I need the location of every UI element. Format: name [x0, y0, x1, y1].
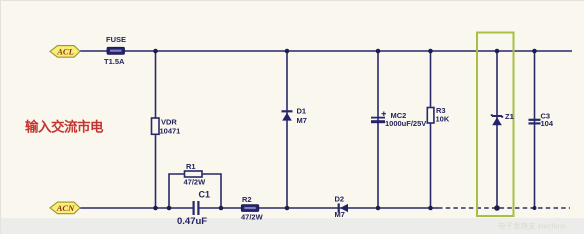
svg-text:104: 104	[541, 119, 554, 128]
svg-text:M7: M7	[335, 210, 345, 219]
svg-text:电子发烧友 elecfans: 电子发烧友 elecfans	[498, 221, 566, 231]
svg-text:Z1: Z1	[505, 112, 514, 121]
svg-text:47/2W: 47/2W	[184, 178, 207, 187]
svg-text:D1: D1	[297, 107, 307, 116]
svg-text:1000uF/25V: 1000uF/25V	[385, 119, 426, 128]
svg-text:FUSE: FUSE	[106, 35, 126, 44]
svg-text:M7: M7	[297, 116, 307, 125]
svg-text:10K: 10K	[436, 115, 450, 124]
svg-text:T1.5A: T1.5A	[104, 57, 125, 66]
svg-text:C1: C1	[199, 190, 211, 200]
svg-text:R1: R1	[186, 162, 196, 171]
svg-text:47/2W: 47/2W	[241, 213, 264, 222]
svg-text:VDR: VDR	[161, 118, 177, 127]
svg-text:10471: 10471	[160, 127, 181, 136]
svg-text:ACL: ACL	[56, 46, 74, 56]
svg-text:输入交流市电: 输入交流市电	[25, 119, 104, 135]
svg-text:0.47uF: 0.47uF	[177, 216, 207, 227]
svg-text:D2: D2	[335, 195, 345, 204]
svg-text:ACN: ACN	[56, 203, 75, 213]
svg-text:R2: R2	[242, 195, 252, 204]
